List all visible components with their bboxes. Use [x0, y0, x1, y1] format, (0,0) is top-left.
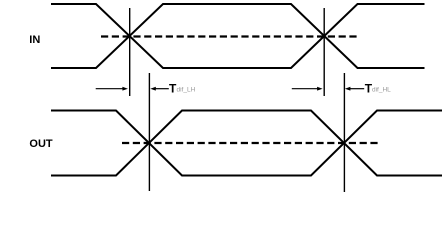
- label Tdif_HL: [365, 81, 391, 95]
- wire dimension arrow left inner (points left at OUT cursor, leader to label): [150, 87, 169, 91]
- svg-text:OUT: OUT: [29, 138, 53, 150]
- wire OUT trace rising (bottom-left rail, rises at X3, top rail, falls at X4, bottom rail): [51, 111, 442, 176]
- node IN crossing cursor 2 (vertical reference line at second IN crossing): [323, 8, 325, 96]
- wire dimension arrow right inner (points left at OUT cursor 2, leader to label): [345, 87, 364, 91]
- node IN crossing cursor (vertical reference line at first IN crossing): [129, 8, 131, 96]
- wire OUT midline (dashed common-mode level): [122, 142, 378, 144]
- label Tdif_LH: [169, 81, 196, 95]
- node OUT crossing cursor (vertical reference line at first OUT crossing): [148, 73, 150, 191]
- wire dimension arrow right outer (points right at IN cursor 2): [292, 87, 323, 91]
- wire dimension arrow left outer (points right at IN cursor): [96, 87, 128, 91]
- svg-text:IN: IN: [29, 34, 40, 46]
- wire OUT trace falling (top-left rail, falls at X3, bottom rail, rises at X4, top rail): [51, 111, 442, 176]
- wire IN trace rising (bottom-left rail, rises at X1, top rail, falls at X2, bottom rail): [51, 4, 425, 68]
- node OUT crossing cursor 2 (vertical reference line at second OUT crossing): [343, 73, 345, 192]
- svg-text:dif_LH: dif_LH: [177, 87, 196, 94]
- wire IN midline (dashed common-mode level): [101, 35, 359, 37]
- wire IN trace falling (top-left rail, falls at X1, bottom rail, rises at X2, top rail): [51, 4, 425, 68]
- svg-text:dif_HL: dif_HL: [372, 87, 391, 94]
